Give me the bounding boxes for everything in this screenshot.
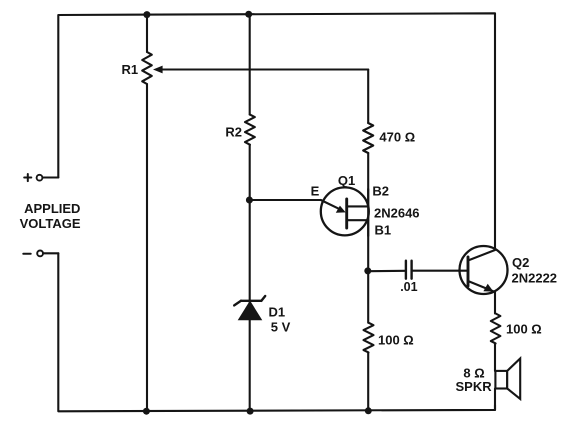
svg-text:E: E — [311, 183, 320, 198]
svg-text:470 Ω: 470 Ω — [379, 130, 415, 145]
svg-text:SPKR: SPKR — [456, 379, 493, 394]
svg-text:Q1: Q1 — [338, 173, 355, 188]
svg-text:100 Ω: 100 Ω — [506, 322, 542, 337]
svg-text:2N2222: 2N2222 — [512, 271, 558, 286]
svg-text:APPLIED: APPLIED — [24, 201, 80, 216]
svg-text:VOLTAGE: VOLTAGE — [20, 216, 81, 231]
svg-text:.01: .01 — [400, 280, 417, 294]
svg-text:100 Ω: 100 Ω — [378, 333, 414, 348]
svg-text:B1: B1 — [375, 223, 392, 238]
svg-text:Q2: Q2 — [512, 255, 529, 270]
svg-text:2N2646: 2N2646 — [374, 205, 420, 220]
svg-text:R2: R2 — [225, 125, 242, 140]
svg-text:D1: D1 — [269, 305, 286, 320]
svg-text:B2: B2 — [372, 183, 389, 198]
svg-text:R1: R1 — [122, 62, 139, 77]
svg-text:5 V: 5 V — [271, 319, 291, 334]
